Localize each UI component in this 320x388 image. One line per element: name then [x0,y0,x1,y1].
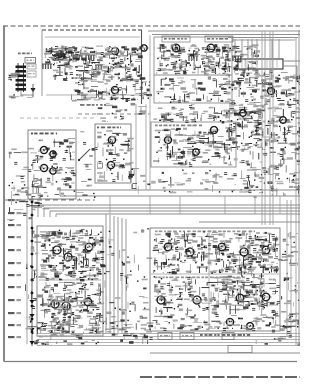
transistor Q26 [184,248,196,256]
parts left of U1 [227,55,228,56]
amp R divider [151,273,279,275]
wire: dashed link row [78,113,150,115]
wire: bus step [59,190,61,196]
band unit parts row 3 [81,95,87,97]
switch S1 diagonal [79,149,90,160]
relay unit enclosure [28,130,76,199]
amp R parts heavy [263,254,269,256]
transistor Q22 [49,300,61,308]
label: ANT UNIT text [18,53,21,55]
wire: outer bottom border [4,361,297,363]
power amp R enclosure [150,228,280,331]
wire: right-top bus a [228,37,298,39]
amp L outside parts [35,298,37,300]
if unit parts [160,120,161,121]
relay unit parts [55,194,59,196]
wire: left column stubs [13,94,14,95]
transistor Q21 [83,243,95,251]
parts below U1 [284,93,291,95]
small parts left of VC1 [15,71,16,73]
transistor Q19 [51,246,63,254]
wire: left vertical feed [31,196,33,346]
amp R right parts [291,252,292,253]
transistor Q32 [234,294,246,302]
amp R inner divider v2 [249,230,251,272]
wire: outer left border [3,26,5,362]
parts between tuner and IC [252,52,254,57]
junction dots on left feed [31,201,34,334]
bus left components [35,202,40,204]
right mid parts dense [299,104,300,106]
tuner lower parts [165,78,166,79]
diode D1 arrow [31,88,36,93]
terminal strip labels [8,199,21,338]
wire: top rail 3 [152,34,300,36]
band unit parts row 1 [95,50,97,58]
transistor Q14 [106,136,117,143]
wire: band unit right edge drop [141,30,143,104]
right mid parts edge [229,108,234,110]
label box right of VC1 a [27,64,36,69]
if unit label row [155,125,158,127]
amp R parts upper [180,261,181,262]
transformer comb T5 [95,65,103,70]
transistor Q27 [216,243,228,251]
transistor Q31 [191,296,203,304]
wire: bottom bus bundle [37,334,300,346]
wire: top rail 2 [148,30,300,32]
terminal box ANT [25,58,36,64]
transistor Q10 [38,146,49,153]
IC U1 [238,59,283,69]
wire: dashed bus y200 [5,199,95,201]
transistor Q9 [278,117,289,124]
wire: main bus bundle [38,205,300,217]
transistor Q12 [38,164,49,171]
transformer comb T2 [73,55,83,60]
transistor Q25 [162,243,174,251]
wire: bottom dark dashed line [140,376,300,378]
tuner label box 1 [162,36,190,42]
band unit parts row 2 [105,71,106,72]
if unit parts inner [157,158,159,164]
transistor Q20 [62,253,74,261]
connector parts mid-left [9,152,11,159]
amp L dark pocket [54,325,55,326]
wire: audio drop lines [135,104,137,190]
tuner parts dense [208,50,209,51]
wire: band unit bottom rail [46,94,140,96]
bottom parts right [272,330,275,332]
wire: band unit dashed top [42,29,142,31]
amp R label row 2 [155,277,157,279]
transistor Q4 [109,86,120,93]
wire: left feed second [26,199,28,344]
wire: band unit left edge [41,30,43,96]
parts below if unit [214,182,219,184]
label: FRONT END [80,104,85,106]
wires between units [75,131,77,135]
transistor Q5 [170,44,182,52]
small box bottom right [228,346,252,353]
wire: vertical bus bundle [106,214,126,333]
transistor Q28 [238,248,250,256]
tuner lower enclosure [154,75,232,103]
wire: outer top border [3,25,300,27]
transformer comb T6 [188,56,198,61]
amp L parts lower [66,331,68,333]
power amp L enclosure [37,226,103,336]
transistor Q33 [260,293,272,301]
wire: U1 right leads [283,60,300,62]
right mid dark pocket [257,140,262,142]
if unit enclosure [151,122,236,167]
transistor Q7 [266,88,277,95]
transformer comb T4 [42,64,52,69]
transistor Q30 [155,296,167,304]
audio unit enclosure [95,124,131,183]
wire: U1 top pin drops [235,39,279,58]
terminal box bottom 2 [180,333,194,340]
transformer comb T7 [232,56,242,61]
amp L parts upper [52,250,54,256]
transistor Q8 [238,110,249,117]
transistor Q11 [48,151,58,157]
transistor Q16 [209,127,220,134]
band unit dark pocket [51,47,53,53]
parts right of if unit [255,174,260,177]
parts under band unit [142,112,145,114]
wire: VC1 bottom link [20,91,22,95]
wire: left feed stubs [26,268,27,269]
audio label [97,127,99,129]
transistor Q29 [260,246,272,254]
transistor Q35 [245,323,256,330]
wire: bottom rail right [150,352,300,354]
wire: dashed link row 2 [20,117,95,119]
transistor Q17 [163,137,174,144]
terminal box bottom 3 [222,333,234,340]
wire: right vertical rails [262,30,299,345]
bus vertical taps [110,196,280,214]
terminal box bottom 1 [158,333,172,340]
transistor Q13 [48,168,58,174]
wire: bus y190 [60,189,300,191]
amp R inner divider v1 [208,230,210,330]
right mid parts lower [267,168,269,175]
diodes D2-D5 on left feed [30,300,35,345]
parts left of if unit low [128,176,133,178]
wire: right-top bus b [232,39,295,41]
wire: band unit inner rail [45,36,140,38]
transistor Q34 [224,318,235,325]
tuner unit enclosure [154,37,232,75]
parts near vertical bus [108,241,110,244]
transformer comb T3 [85,55,95,60]
transistor Q6 [205,44,217,52]
transistor Q3 [139,45,149,51]
wire: bus y196 [60,195,300,197]
label: RELAY PCB [31,133,33,135]
transistor Q2 [109,47,120,54]
transistor Q23 [60,302,72,310]
transistor Q24 [82,298,94,306]
audio unit parts [104,142,111,144]
bottom speaker labels [200,334,203,336]
wire: amp R top feed [199,221,300,223]
tuner label box 2 [205,36,233,42]
amp L inner divider [39,279,101,281]
amp R label row [155,231,158,233]
transistor Q1 [55,52,66,59]
bottom parts left [92,339,95,341]
transistor Q18 [191,149,202,156]
amp R parts lower [179,292,181,297]
label box right of VC1 b [27,71,36,77]
variable capacitor VC1 stack [16,63,27,92]
transistor Q15 [105,161,116,168]
